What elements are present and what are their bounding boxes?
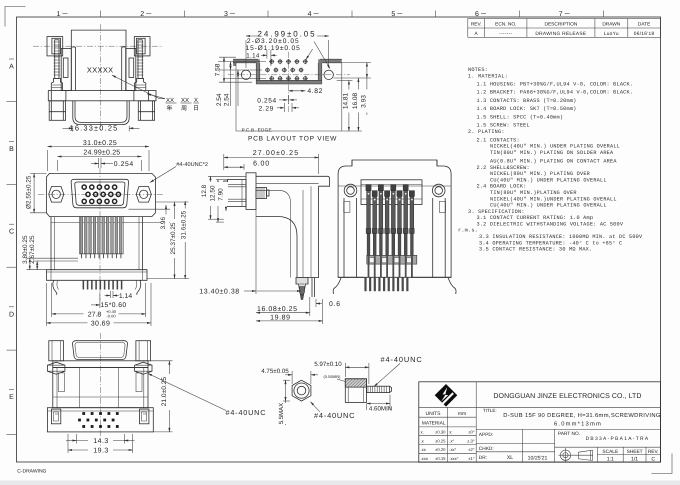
svg-text:24.99±0.25: 24.99±0.25 — [83, 150, 120, 157]
hex nut left — [49, 187, 64, 203]
svg-text:NICKEL(40U" MIN.)UNDER PLATING: NICKEL(40U" MIN.)UNDER PLATING OVERALL — [490, 196, 617, 202]
svg-text:1.5 SCREW: STEEL: 1.5 SCREW: STEEL — [477, 123, 530, 129]
dimension 21.0±0.25 — [151, 361, 173, 432]
label #4-40UNC (bottom view leader) — [148, 374, 266, 417]
svg-text:4.60MIN: 4.60MIN — [369, 405, 392, 412]
dimension 24.99±0.05 (pcb) — [246, 29, 329, 68]
bottom view of connector — [47, 333, 153, 447]
svg-text:0.254: 0.254 — [257, 98, 277, 105]
svg-text:D: D — [9, 311, 14, 318]
svg-text:.xx°: .xx° — [449, 447, 456, 452]
svg-text:31.0±0.25: 31.0±0.25 — [83, 140, 117, 147]
svg-text:1.2 BRACKET: PA66+30%G/F,UL94: 1.2 BRACKET: PA66+30%G/F,UL94 V-0,COLOR:… — [477, 90, 634, 96]
svg-text:NICKEL(40U" MIN.) UNDER PLATIN: NICKEL(40U" MIN.) UNDER PLATING OVERALL — [490, 144, 620, 150]
appd/chkd/dr rows — [479, 432, 548, 461]
screw detail: hex nut face — [292, 380, 311, 401]
dimension 14.3 — [66, 434, 135, 445]
svg-text:.xxx: .xxx — [421, 456, 429, 461]
svg-text:6: 6 — [475, 11, 479, 18]
svg-text:2.54: 2.54 — [216, 93, 223, 106]
svg-text:31.6±0.25: 31.6±0.25 — [180, 210, 187, 239]
dimension 0.254 (front) — [91, 158, 134, 168]
svg-text:19.3: 19.3 — [93, 447, 109, 454]
svg-text:B: B — [9, 146, 14, 153]
dimensions 14.81 16.08 3.93 — [333, 63, 371, 132]
svg-text:6.00: 6.00 — [253, 160, 270, 167]
dimension 0.6 — [316, 299, 341, 308]
bottom strip — [0, 481, 680, 485]
svg-text:16.33±0.25: 16.33±0.25 — [70, 124, 119, 133]
svg-text:27.8: 27.8 — [88, 311, 102, 318]
front view lower body — [47, 217, 148, 295]
svg-text:TIN(80U" MIN.)PLATING OVER: TIN(80U" MIN.)PLATING OVER — [490, 190, 577, 196]
pin contacts 15x — [82, 185, 120, 203]
svg-text:±1°: ±1° — [468, 456, 475, 461]
svg-text:3.1 CONTACT CURRENT RATING: 1.: 3.1 CONTACT CURRENT RATING: 1.0 Amp — [477, 215, 594, 221]
svg-text:27.00±0.25: 27.00±0.25 — [253, 150, 299, 157]
svg-text:1.14: 1.14 — [246, 53, 260, 60]
label XXXXX (marking) — [87, 65, 165, 98]
svg-text:DESCRIPTION: DESCRIPTION — [545, 22, 578, 28]
svg-text:3.93: 3.93 — [361, 95, 368, 108]
svg-text:(0.50MIN): (0.50MIN) — [324, 375, 342, 379]
svg-text:3.3 INSULATION RESISTANCE: 100: 3.3 INSULATION RESISTANCE: 1000MΩ MIN. a… — [479, 234, 643, 240]
top view of connector — [33, 24, 163, 130]
rear view of connector — [338, 160, 451, 277]
svg-text:.x°: .x° — [449, 438, 454, 443]
svg-text:2. PLATING:: 2. PLATING: — [468, 129, 505, 135]
svg-text:4: 4 — [308, 11, 312, 18]
svg-text:r.m.s.: r.m.s. — [458, 228, 478, 234]
svg-text:-0.00: -0.00 — [106, 314, 116, 319]
svg-text:APPD:: APPD: — [479, 432, 493, 438]
svg-text:MATERIAL: MATERIAL — [422, 421, 446, 427]
dimension 24.99±0.25 — [58, 150, 142, 171]
dimension 4.75±0.05 — [261, 368, 318, 384]
svg-text:±0.25: ±0.25 — [435, 438, 446, 443]
svg-text:P.C.B. EDGE: P.C.B. EDGE — [242, 127, 272, 132]
svg-text:Ø2.55±0.25: Ø2.55±0.25 — [25, 175, 32, 209]
svg-text:UNITS: UNITS — [426, 411, 442, 417]
svg-text:14.3: 14.3 — [93, 438, 109, 445]
svg-text:19.89: 19.89 — [270, 314, 291, 321]
svg-text:CU(40U" MIN.) UNDER PLATING OV: CU(40U" MIN.) UNDER PLATING OVERALL — [490, 203, 607, 209]
svg-text:16.08±0.25: 16.08±0.25 — [257, 306, 297, 313]
svg-text:1.1 HOUSING: PBT+30%G/F,UL94 V: 1.1 HOUSING: PBT+30%G/F,UL94 V-0, COLOR:… — [477, 81, 634, 87]
dimension 15*0.60 — [91, 293, 127, 309]
svg-text:5: 5 — [391, 11, 395, 18]
svg-text:SHEET: SHEET — [627, 449, 643, 455]
svg-text:日: 日 — [193, 105, 199, 112]
svg-text:REV.: REV. — [648, 449, 659, 455]
svg-text:A: A — [9, 64, 14, 71]
svg-text:3.5 CONTACT RESISTANCE: 30 MΩ: 3.5 CONTACT RESISTANCE: 30 MΩ MAX. — [479, 247, 592, 253]
svg-text:DATE: DATE — [638, 22, 650, 28]
svg-text:DRAWN: DRAWN — [602, 22, 620, 28]
svg-text:±.3°: ±.3° — [467, 438, 475, 443]
dimension 19.3 — [68, 434, 133, 454]
dimension 27.8 +0.40/-0.00 — [52, 283, 146, 319]
svg-text:2.2 SHELL&SCREW:: 2.2 SHELL&SCREW: — [477, 165, 530, 171]
svg-text:DB33A-PBA1A-TRA: DB33A-PBA1A-TRA — [586, 436, 650, 442]
dimension 13.40±0.38 — [199, 210, 301, 296]
svg-text:7.90: 7.90 — [218, 188, 225, 201]
svg-text:06/16'18: 06/16'18 — [634, 31, 655, 37]
svg-text:2.1 CONTACTS:: 2.1 CONTACTS: — [477, 137, 520, 143]
svg-text:A: A — [474, 31, 478, 37]
screw side view — [345, 379, 391, 403]
svg-text:15-Ø1.19±0.05: 15-Ø1.19±0.05 — [246, 45, 301, 52]
svg-text:XL: XL — [507, 455, 513, 461]
svg-text:C: C — [651, 457, 655, 463]
svg-text:1.14: 1.14 — [119, 293, 132, 300]
dimensions 3.80 2.67 left — [22, 235, 78, 270]
svg-text:#4-40UNC: #4-40UNC — [226, 408, 267, 417]
svg-text:PCB LAYOUT TOP VIEW: PCB LAYOUT TOP VIEW — [248, 136, 337, 143]
svg-text:.xxx°: .xxx° — [449, 456, 458, 461]
svg-text:3.2 DIELECTRIC WITHSTANDING VO: 3.2 DIELECTRIC WITHSTANDING VOLTAGE: AC … — [477, 222, 624, 228]
svg-text:DRAWING RELEASE: DRAWING RELEASE — [535, 31, 586, 37]
company logo — [435, 384, 458, 407]
svg-text:2: 2 — [140, 11, 144, 18]
svg-text:.xx: .xx — [421, 447, 427, 452]
svg-text:±0.30: ±0.30 — [435, 430, 446, 435]
dimension 31.0±0.25 — [48, 140, 150, 171]
svg-text:2.4 BOARD LOCK:: 2.4 BOARD LOCK: — [477, 184, 527, 190]
dimension 6.00 — [224, 160, 270, 170]
svg-text:CU(40U" MIN.) UNDER PLATING OV: CU(40U" MIN.) UNDER PLATING OVERALL — [490, 177, 607, 183]
svg-text:16.08: 16.08 — [352, 92, 359, 109]
dimensions 16.08±0.25 19.89 — [256, 297, 323, 324]
dimension 16.33±0.25 — [63, 124, 140, 133]
svg-text:2-Ø3.20±0.05: 2-Ø3.20±0.05 — [247, 38, 300, 45]
svg-text:1. MATERIAL:: 1. MATERIAL: — [468, 73, 508, 79]
scale sheet rev — [602, 449, 658, 463]
svg-text:2.54: 2.54 — [224, 93, 231, 106]
pin dots 15x bottom — [78, 412, 119, 428]
svg-text:30.69: 30.69 — [91, 321, 111, 328]
dimension 30.69 — [47, 283, 152, 328]
dimension 7.58 — [215, 57, 252, 82]
dimension 0.254 (pcb) — [257, 95, 297, 105]
svg-text:±0.15: ±0.15 — [435, 456, 446, 461]
svg-text:-------: ------- — [499, 32, 512, 37]
dimension 5.5MAX — [278, 380, 290, 425]
svg-text:3: 3 — [224, 11, 228, 18]
svg-text:LuoYu: LuoYu — [604, 31, 619, 37]
units / material / tolerance table — [421, 411, 475, 461]
svg-text:NOTES:: NOTES: — [468, 67, 488, 73]
svg-text:周: 周 — [181, 105, 187, 112]
svg-text:DONGGUAN JINZE ELECTRONICS: DONGGUAN JINZE ELECTRONICS CO., LTD — [493, 393, 641, 400]
svg-text:CHKD:: CHKD: — [479, 446, 494, 452]
svg-text:10/25'21: 10/25'21 — [528, 455, 548, 461]
svg-text:±2°: ±2° — [468, 447, 475, 452]
dimensions right side 3.96 25.37 31.6 — [129, 201, 190, 279]
svg-text:2.29: 2.29 — [259, 105, 274, 112]
svg-text:D-SUB 15F 90 DEGREE, H=31.6mm,: D-SUB 15F 90 DEGREE, H=31.6mm,SCREWDRIVI… — [503, 412, 661, 419]
third angle projection symbol — [559, 448, 594, 462]
rear boardlock wires — [333, 278, 456, 294]
title block — [419, 382, 661, 462]
dimension 4.60MIN — [367, 395, 393, 413]
dimension 2.29 (pcb) — [259, 103, 299, 112]
svg-text:13.40±0.38: 13.40±0.38 — [199, 288, 239, 295]
svg-text:1.5 SHELL: SPCC (T=0.40mm): 1.5 SHELL: SPCC (T=0.40mm) — [477, 115, 564, 121]
svg-text:年: 年 — [167, 104, 173, 112]
svg-text:14.81: 14.81 — [342, 92, 349, 109]
bottom comb pins rear — [338, 277, 451, 291]
dimension 5.97±0.10 — [314, 361, 369, 384]
svg-text:1/1: 1/1 — [631, 457, 638, 463]
svg-text:4.82: 4.82 — [307, 88, 323, 95]
part no — [558, 431, 650, 442]
svg-text:x.: x. — [421, 430, 424, 435]
svg-text:#4-40UNC: #4-40UNC — [381, 355, 423, 364]
svg-text:ECN. NO.: ECN. NO. — [495, 22, 516, 28]
dimension 1.14 (pcb) — [246, 50, 276, 66]
dimension 4.82 — [289, 88, 324, 95]
svg-text:12.50: 12.50 — [210, 185, 217, 201]
dimensions 12.8 12.50 7.90 — [200, 176, 246, 222]
svg-text:12.8: 12.8 — [201, 184, 208, 197]
svg-text:SCALE: SCALE — [602, 449, 618, 455]
PCB layout top view — [228, 52, 362, 131]
svg-text:1.3 CONTACTS: BRASS (T=0.20mm): 1.3 CONTACTS: BRASS (T=0.20mm) — [477, 98, 577, 104]
svg-text:C: C — [9, 229, 14, 236]
svg-text:3.96: 3.96 — [160, 217, 167, 230]
svg-text:DR:: DR: — [479, 455, 487, 461]
revision table — [468, 19, 661, 38]
svg-text:1.4 BOARD LOCK: SK7 (T=0.50mm): 1.4 BOARD LOCK: SK7 (T=0.50mm) — [477, 106, 577, 112]
svg-text:#4-40UNC*2: #4-40UNC*2 — [176, 162, 208, 168]
svg-text:x:: x: — [449, 430, 452, 435]
title text — [483, 408, 661, 428]
svg-text:5.97±0.10: 5.97±0.10 — [314, 361, 342, 368]
dimension 27.00±0.25 — [224, 150, 319, 174]
svg-text:REV.: REV. — [471, 22, 482, 28]
svg-text:±0°: ±0° — [468, 430, 475, 435]
svg-text:6.0mm*13mm: 6.0mm*13mm — [554, 420, 602, 427]
svg-text:±0.20: ±0.20 — [435, 447, 446, 452]
svg-text:E: E — [9, 394, 14, 401]
svg-text:AU(0.8U" MIN.) PLATING ON CONT: AU(0.8U" MIN.) PLATING ON CONTACT AREA — [490, 159, 617, 165]
pin holes 15x — [265, 59, 308, 81]
svg-text:5.5MAX: 5.5MAX — [278, 403, 285, 424]
notes text block — [458, 67, 643, 252]
solder cup pins (dark) — [366, 185, 415, 277]
svg-text:0.6: 0.6 — [329, 301, 341, 308]
svg-text:PART NO.: PART NO. — [558, 431, 580, 437]
side view with bracket — [224, 173, 330, 300]
dimension 1.14 (front) — [105, 291, 133, 300]
svg-text:TITLE:: TITLE: — [483, 408, 497, 413]
dimensions 2.54 2.54 — [216, 62, 266, 107]
svg-text:1:1: 1:1 — [607, 457, 614, 463]
label #4-40UNC*2 — [150, 162, 208, 183]
svg-text:#4-40UNC: #4-40UNC — [314, 411, 355, 420]
svg-text:NICKEL(80U" MIN.) PLATING OVER: NICKEL(80U" MIN.) PLATING OVER — [490, 171, 590, 177]
svg-text:C-DRAWING: C-DRAWING — [17, 469, 46, 475]
svg-text:25.37±0.25: 25.37±0.25 — [170, 222, 177, 254]
svg-text:mm: mm — [458, 411, 466, 417]
label #4-40UNC (nut) — [311, 402, 356, 420]
svg-text:1: 1 — [57, 11, 61, 18]
label Ø0.50MIN — [324, 375, 346, 382]
label date code XX XX X — [166, 97, 200, 112]
svg-text:0.254: 0.254 — [114, 161, 134, 168]
label #4-40UNC (screw) — [374, 355, 423, 387]
svg-text:3. SPECIFICATION:: 3. SPECIFICATION: — [468, 209, 525, 215]
front view of D-SUB 15F — [38, 168, 164, 300]
svg-text:3.4 OPERATING TEMPERATURE: -40: 3.4 OPERATING TEMPERATURE: -40° C to +85… — [479, 240, 622, 246]
hex nut right — [136, 187, 151, 203]
svg-text:7: 7 — [559, 11, 563, 18]
svg-text:4.75±0.05: 4.75±0.05 — [261, 368, 289, 375]
dimension Ø2.55±0.25 — [25, 173, 46, 212]
svg-text:XXXXX: XXXXX — [87, 65, 114, 74]
svg-text:TIN(80U" MIN.) PLATING ON SOLD: TIN(80U" MIN.) PLATING ON SOLDER AREA — [490, 150, 614, 156]
